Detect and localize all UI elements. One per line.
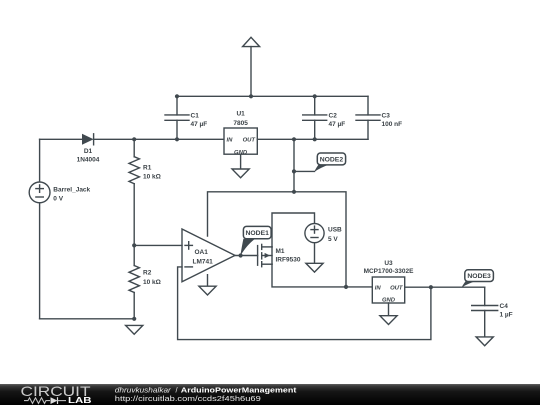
footer logo squiggle xyxy=(24,397,66,404)
svg-text:OUT: OUT xyxy=(243,138,257,144)
ground below U3 xyxy=(380,316,397,325)
resistor R1 xyxy=(129,139,161,245)
junction opamp output / NODE1 xyxy=(239,253,243,257)
junction input rail / R1 xyxy=(132,137,136,141)
svg-text:MCP1700-3302E: MCP1700-3302E xyxy=(364,268,415,275)
ground below U1 xyxy=(232,169,249,178)
svg-text:R2: R2 xyxy=(143,270,152,277)
voltage source Barrel_Jack xyxy=(29,139,90,318)
wire NODE2 tail horizontal xyxy=(294,170,315,172)
wire opamp V+ rail xyxy=(208,192,347,287)
svg-text:C1: C1 xyxy=(191,113,200,120)
svg-text:5 V: 5 V xyxy=(328,236,338,243)
capacitor C4 xyxy=(472,287,513,337)
svg-text:D1: D1 xyxy=(84,148,93,155)
junction input rail / C1 xyxy=(175,137,179,141)
svg-text:C3: C3 xyxy=(382,113,391,120)
wire power flag to top rail xyxy=(250,47,252,97)
svg-text:OUT: OUT xyxy=(390,286,404,292)
ground below USB xyxy=(306,263,323,272)
svg-text:C4: C4 xyxy=(500,303,509,310)
wire M1 source to U3 IN rail xyxy=(272,264,372,287)
footer logo LAB xyxy=(68,395,92,405)
svg-text:10 kΩ: 10 kΩ xyxy=(143,279,161,286)
svg-text:47 µF: 47 µF xyxy=(191,121,208,128)
svg-text:R1: R1 xyxy=(143,164,152,171)
power flag VCC top xyxy=(243,37,260,46)
footer logo CIRCUIT xyxy=(21,383,92,399)
junction top rail / C2 xyxy=(313,94,317,98)
svg-text:IN: IN xyxy=(227,138,234,144)
voltage regulator U1 7805 xyxy=(224,110,257,155)
resistor R2 xyxy=(129,245,161,318)
capacitor C1 xyxy=(165,96,207,139)
svg-text:NODE2: NODE2 xyxy=(320,156,344,163)
svg-text:Barrel_Jack: Barrel_Jack xyxy=(53,186,90,193)
junction OUT rail / C2 xyxy=(313,137,317,141)
wire U1 GND pin xyxy=(240,154,242,169)
footer credit line xyxy=(115,385,297,403)
svg-text:47 µF: 47 µF xyxy=(329,121,346,128)
wire Barrel_Jack bottom to ground junction xyxy=(40,318,135,320)
svg-text:NODE3: NODE3 xyxy=(467,273,491,280)
voltage regulator U3 MCP1700-3302E xyxy=(364,260,415,303)
svg-text:NODE1: NODE1 xyxy=(245,230,269,237)
junction M1 rail / V+ vertical xyxy=(344,285,348,289)
wire M1 drain to USB rail xyxy=(272,213,315,247)
svg-text:IRF9530: IRF9530 xyxy=(276,256,301,263)
junction top rail / power wire xyxy=(249,94,253,98)
wire opamp output to M1 gate xyxy=(235,255,258,257)
junction top rail / C1 xyxy=(175,94,179,98)
wire NODE2 branch vertical xyxy=(293,139,295,192)
svg-text:1 µF: 1 µF xyxy=(500,311,513,318)
svg-text:U1: U1 xyxy=(236,110,245,117)
svg-text:7805: 7805 xyxy=(233,120,248,127)
wire opamp V- pin xyxy=(207,275,209,287)
capacitor C3 xyxy=(356,96,402,139)
svg-text:0 V: 0 V xyxy=(53,195,63,202)
junction divider node xyxy=(132,243,136,247)
wire opamp - input feedback xyxy=(178,267,431,340)
svg-text:M1: M1 xyxy=(276,248,285,255)
junction R2 / ground / barrel jack xyxy=(132,317,136,321)
svg-text:U3: U3 xyxy=(384,260,393,267)
voltage source USB xyxy=(305,224,342,244)
diode D1 xyxy=(77,134,100,164)
svg-text:LAB: LAB xyxy=(68,395,92,405)
wire U3 GND pin xyxy=(388,303,390,316)
ground below C4 xyxy=(476,337,493,346)
svg-text:OA1: OA1 xyxy=(195,249,209,256)
junction OUT rail / NODE2 branch xyxy=(292,137,296,141)
junction NODE2 branch / opamp V+ rail xyxy=(292,190,296,194)
wire main input rail (left of U1) xyxy=(40,138,224,140)
wire USB to ground xyxy=(314,243,316,264)
node flag NODE2 xyxy=(314,153,345,172)
wire top rail xyxy=(177,95,368,97)
wire U3 OUT to C4 xyxy=(405,286,485,288)
svg-text:100 nF: 100 nF xyxy=(382,121,403,128)
capacitor C2 xyxy=(303,96,346,139)
svg-text:USB: USB xyxy=(328,227,342,234)
svg-text:C2: C2 xyxy=(329,113,338,120)
svg-text:1N4004: 1N4004 xyxy=(77,156,100,163)
wire divider to opamp + input xyxy=(134,244,182,246)
svg-text:http://circuitlab.com/ccds2f45: http://circuitlab.com/ccds2f45h6u69 xyxy=(115,394,261,403)
svg-text:10 kΩ: 10 kΩ xyxy=(143,174,161,181)
op-amp OA1 LM741 xyxy=(182,229,235,282)
ground below op-amp xyxy=(199,286,216,295)
wire U1 OUT rail xyxy=(257,138,368,140)
node flag NODE1 xyxy=(240,226,271,256)
node flag NODE3 xyxy=(462,270,494,288)
svg-text:IN: IN xyxy=(375,286,382,292)
junction NODE2 tail xyxy=(292,169,296,173)
junction U3 OUT / feedback xyxy=(429,285,433,289)
transistor M1 IRF9530 xyxy=(258,244,301,266)
footer bar xyxy=(0,384,540,405)
ground bottom-left xyxy=(126,325,143,334)
svg-text:LM741: LM741 xyxy=(193,258,214,265)
